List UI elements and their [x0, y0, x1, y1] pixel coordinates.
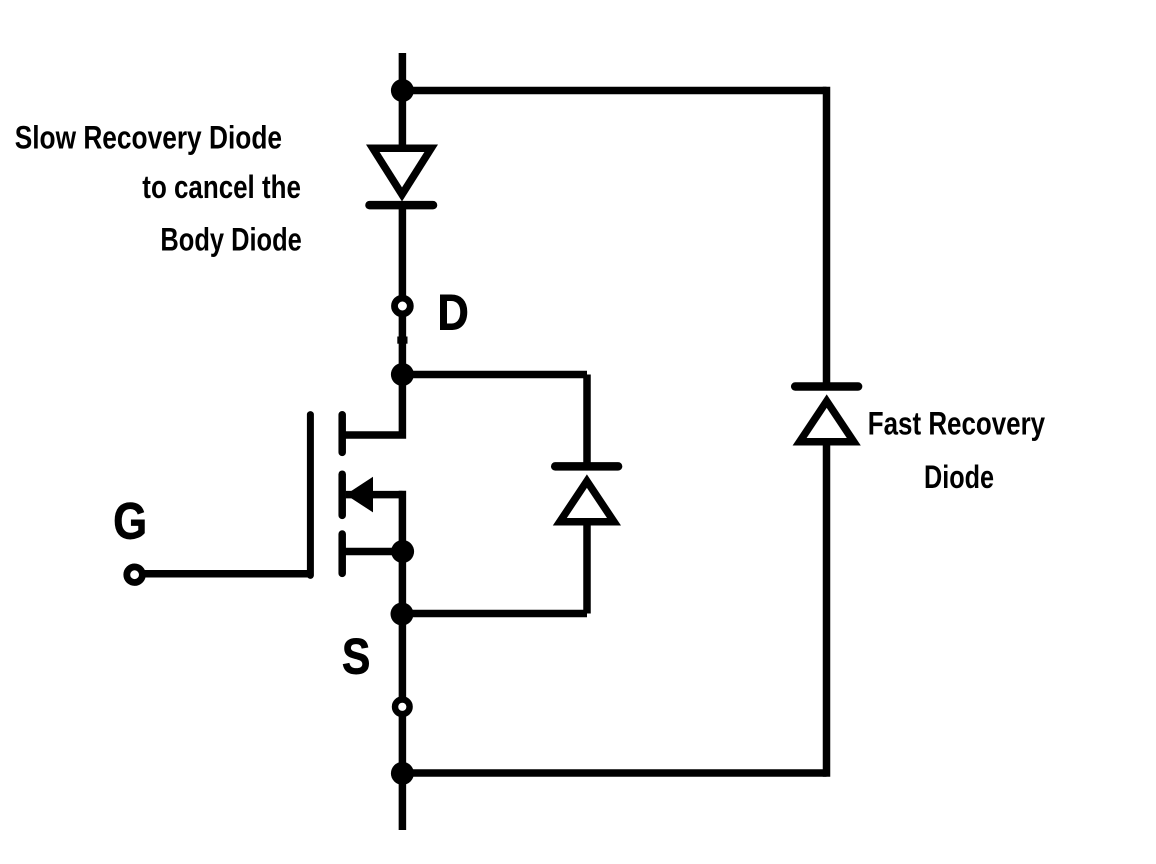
wire source node to terminal: [399, 614, 407, 774]
diode D2 body triangle: [553, 474, 621, 525]
wire anode slow diode: [399, 91, 407, 151]
junction node drain: [391, 363, 414, 386]
wire drain to MOSFET: [342, 375, 402, 436]
wire right vertical upper: [823, 87, 831, 387]
svg-text:Body Diode: Body Diode: [160, 222, 301, 258]
terminal S open circle: [395, 700, 410, 715]
transistor Q1 channel segment middle: [338, 474, 346, 515]
svg-text:Fast Recovery: Fast Recovery: [868, 406, 1045, 442]
diode D2 body cathode bar: [555, 462, 618, 471]
wire top horizontal: [402, 87, 826, 95]
junction node source bar: [391, 540, 414, 563]
junction node source branch: [391, 603, 414, 626]
junction node top: [391, 79, 414, 102]
wire body diode lower: [583, 524, 591, 614]
wire source to MOSFET: [342, 548, 402, 556]
wire gate lead: [135, 570, 311, 578]
diode D1 slow recovery triangle: [366, 145, 438, 202]
terminal D open circle: [395, 298, 411, 314]
transistor Q1 gate line: [307, 415, 314, 576]
svg-text:to cancel the: to cancel the: [142, 169, 301, 205]
wire body diode upper: [583, 375, 591, 467]
svg-text:Slow Recovery Diode: Slow Recovery Diode: [15, 120, 282, 156]
junction node bottom: [391, 762, 414, 785]
wire bottom stub: [399, 773, 407, 830]
wire overlap tick: [397, 337, 407, 344]
diode D3 fast recovery cathode bar: [795, 382, 858, 391]
diode D1 cathode bar: [370, 201, 434, 210]
transistor Q1 bulk arrowhead: [346, 477, 373, 513]
wire source vertical: [399, 491, 407, 614]
svg-text:Diode: Diode: [924, 459, 994, 495]
wire slow diode to node D: [399, 205, 407, 375]
wire bottom horizontal: [402, 769, 826, 777]
svg-text:G: G: [113, 493, 147, 550]
wire source branch horizontal: [402, 610, 587, 618]
terminal G open circle: [127, 567, 143, 583]
transistor Q1 channel segment bottom: [338, 534, 346, 573]
wire right vertical lower: [823, 444, 831, 777]
wire top stub: [399, 53, 407, 91]
svg-text:S: S: [342, 629, 370, 685]
svg-text:D: D: [438, 284, 469, 340]
transistor Q1 channel segment top: [338, 415, 346, 453]
wire bulk arrow line: [346, 491, 403, 499]
wire drain branch horizontal: [402, 371, 587, 379]
diode D3 fast recovery triangle: [793, 394, 861, 445]
